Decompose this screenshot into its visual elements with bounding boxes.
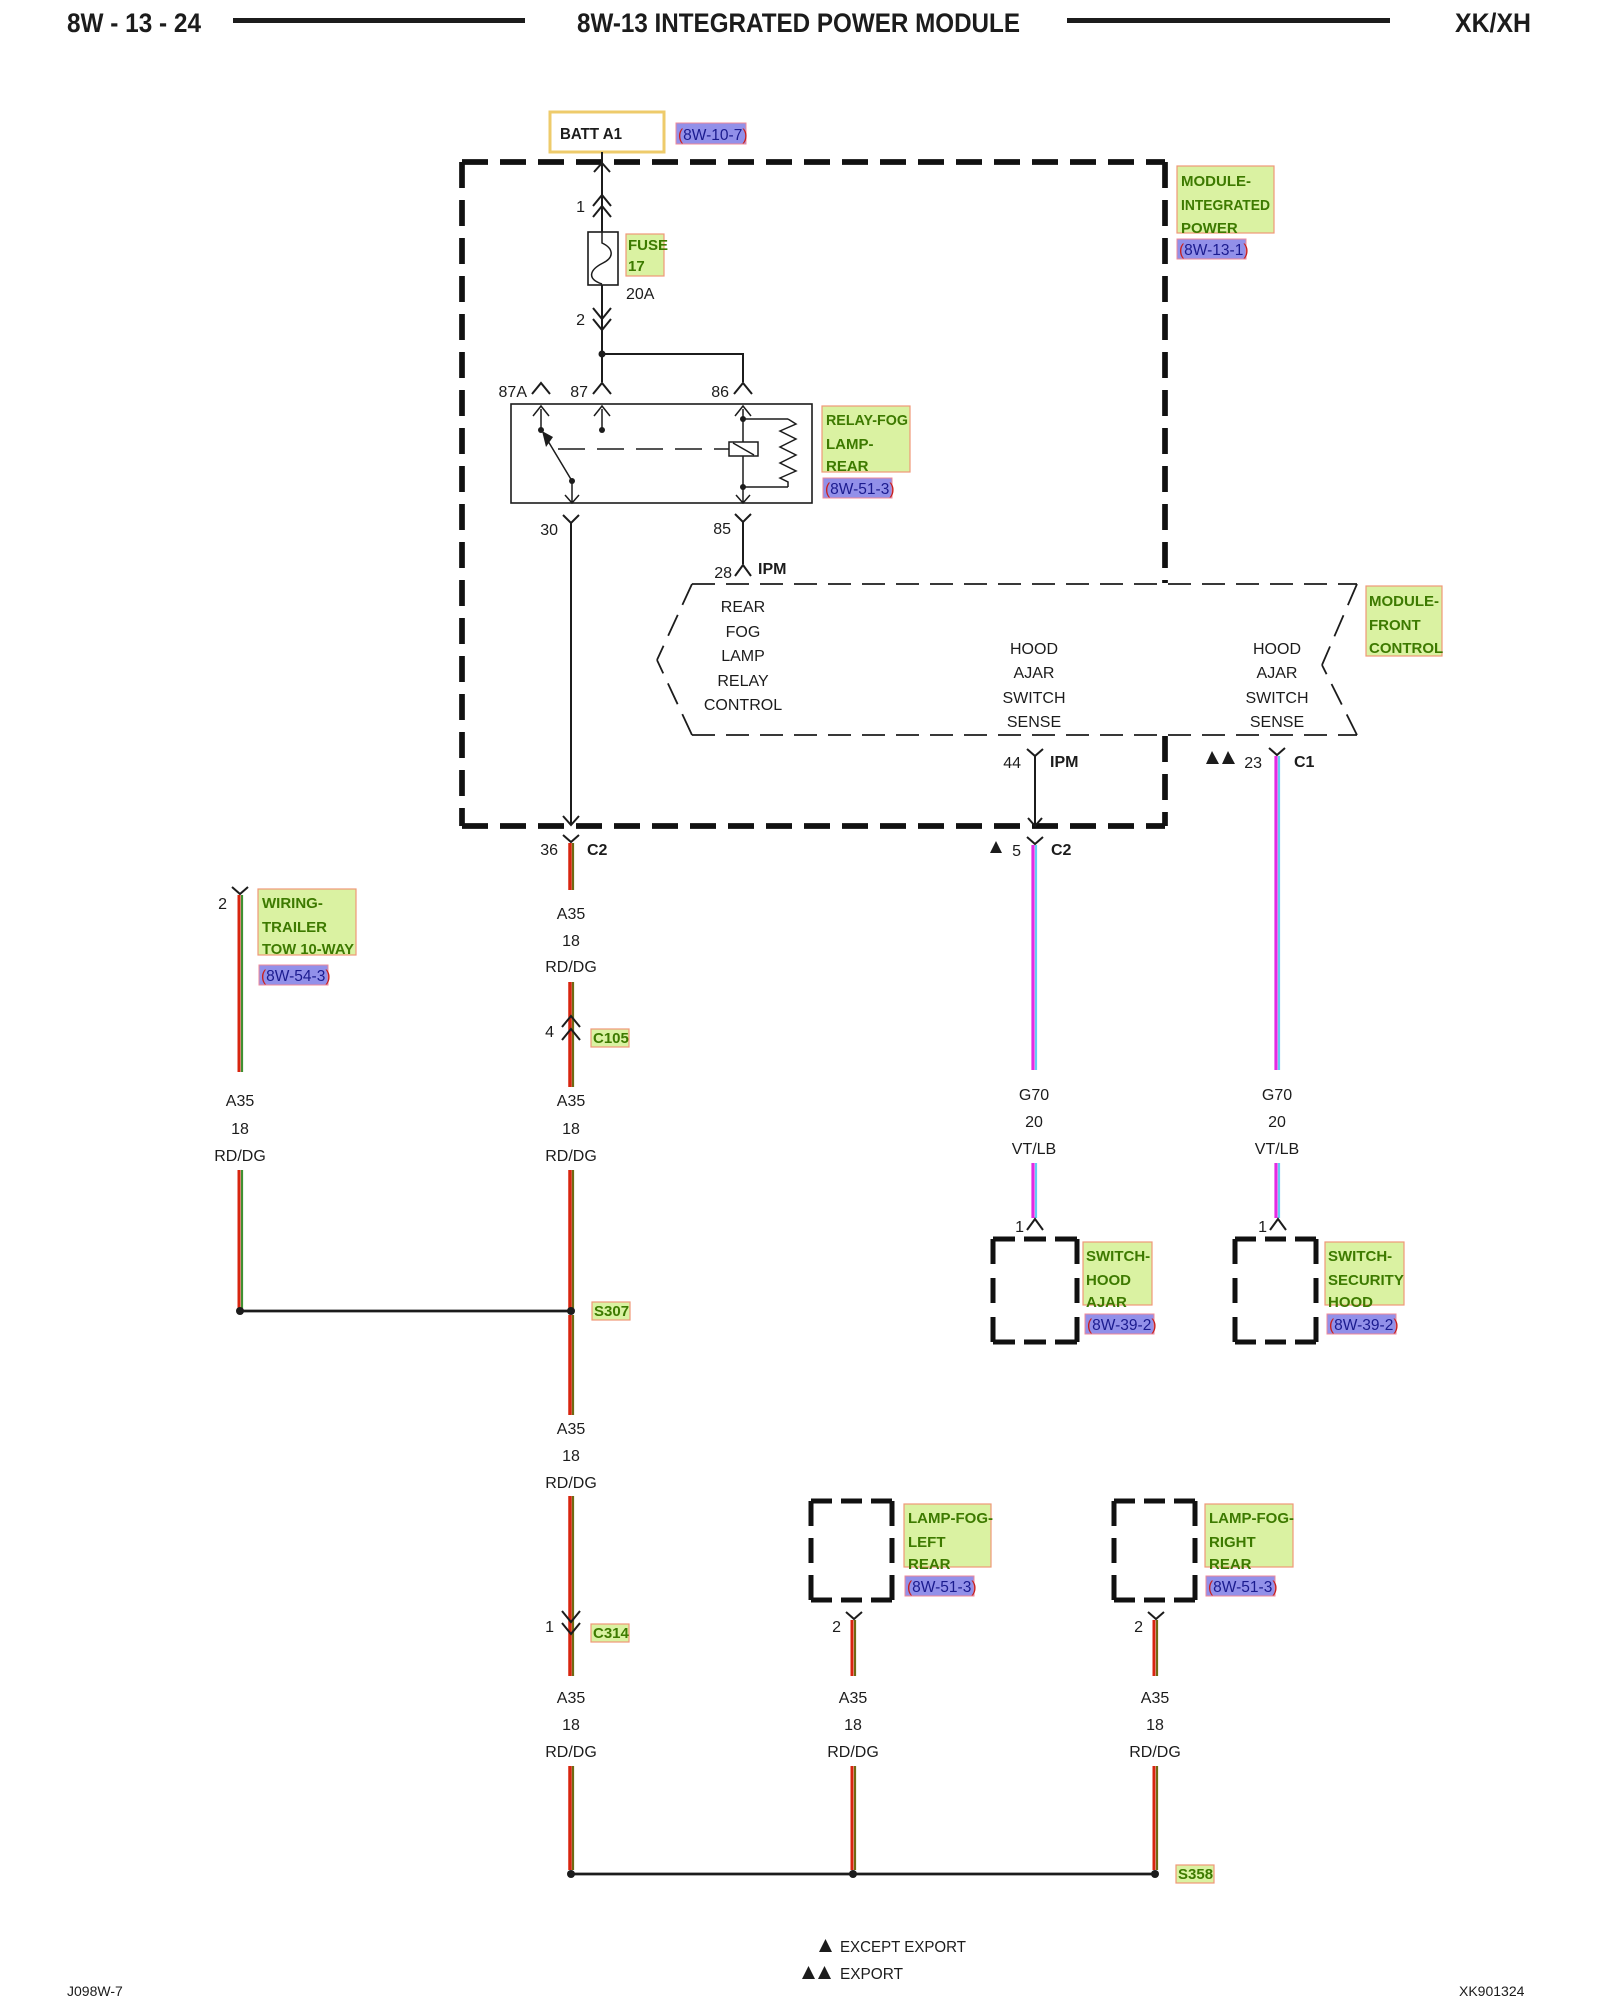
svg-text:C2: C2 — [587, 842, 608, 859]
svg-text:BATT A1: BATT A1 — [560, 126, 622, 143]
wire A35 segment to S307 — [570, 1170, 573, 1308]
arrowhead into module at border — [594, 163, 610, 172]
svg-text:WIRING-: WIRING- — [262, 895, 323, 912]
svg-text:(8W-54-3): (8W-54-3) — [261, 968, 331, 985]
svg-text:AJAR: AJAR — [1257, 665, 1298, 682]
svg-text:C2: C2 — [1051, 842, 1072, 859]
wire pin 30 down to C2 — [563, 529, 579, 825]
svg-text:REAR: REAR — [908, 1556, 951, 1573]
svg-text:(8W-51-3): (8W-51-3) — [825, 481, 895, 498]
connector 1 security hood switch — [1258, 1219, 1286, 1236]
svg-text:RD/DG: RD/DG — [545, 1148, 597, 1165]
module integrated power dashed boundary — [462, 162, 1165, 826]
connector 4 C105 — [545, 1016, 580, 1041]
svg-text:5: 5 — [1012, 843, 1021, 860]
label S307 — [592, 1302, 630, 1320]
svg-text:S307: S307 — [594, 1303, 629, 1320]
label C314 — [591, 1624, 630, 1642]
svg-text:44: 44 — [1003, 755, 1021, 772]
svg-text:2: 2 — [576, 312, 585, 329]
reference label (8W-39-2) left — [1085, 1314, 1157, 1334]
svg-text:SWITCH-: SWITCH- — [1328, 1248, 1392, 1265]
net name rear fog lamp relay control — [704, 599, 782, 714]
svg-text:RD/DG: RD/DG — [827, 1744, 879, 1761]
connector 5 C2 — [990, 837, 1072, 860]
label MODULE-FRONT CONTROL — [1366, 586, 1443, 657]
svg-text:REAR: REAR — [826, 458, 869, 475]
relay RELAY-FOG LAMP-REAR body — [511, 404, 812, 503]
svg-text:1: 1 — [1258, 1219, 1267, 1236]
svg-text:A35: A35 — [557, 906, 586, 923]
svg-text:IPM: IPM — [1050, 754, 1078, 771]
svg-text:18: 18 — [562, 1717, 580, 1734]
svg-text:LAMP: LAMP — [721, 648, 765, 665]
connector 1 chevrons — [576, 195, 611, 217]
svg-text:REAR: REAR — [721, 599, 765, 616]
connector 28 IPM — [714, 561, 786, 582]
svg-text:30: 30 — [540, 522, 558, 539]
label FUSE 17 — [626, 234, 668, 276]
label SWITCH-HOOD AJAR — [1083, 1242, 1152, 1311]
net name hood ajar switch sense right — [1245, 641, 1308, 731]
svg-text:18: 18 — [1146, 1717, 1164, 1734]
svg-text:LEFT: LEFT — [908, 1534, 946, 1551]
wire A35 to S358 left — [570, 1766, 573, 1870]
wire label A35 18 RD/DG bottom right — [1129, 1690, 1181, 1761]
wire A35 right lamp to S358 — [1154, 1766, 1157, 1870]
svg-text:(8W-13-1): (8W-13-1) — [1179, 242, 1249, 259]
svg-text:HOOD: HOOD — [1086, 1272, 1131, 1289]
relay coil box — [729, 442, 758, 456]
svg-text:A35: A35 — [557, 1421, 586, 1438]
svg-text:G70: G70 — [1019, 1087, 1049, 1104]
relay pin 87A terminal — [499, 383, 550, 401]
reference label (8W-10-7) — [676, 123, 748, 144]
svg-text:1: 1 — [545, 1619, 554, 1636]
reference label (8W-51-3) left lamp — [905, 1576, 977, 1596]
reference label (8W-39-2) right — [1327, 1314, 1399, 1334]
legend export — [802, 1966, 903, 1983]
label LAMP-FOG-LEFT REAR — [904, 1504, 993, 1573]
svg-text:20: 20 — [1025, 1114, 1043, 1131]
legend except export — [819, 1939, 966, 1956]
svg-text:VT/LB: VT/LB — [1012, 1141, 1056, 1158]
wire A35 segment label to C105 — [570, 982, 573, 1087]
svg-text:TOW 10-WAY: TOW 10-WAY — [262, 941, 354, 958]
wire A35 below S307 — [570, 1315, 573, 1415]
wire A35 to C314 — [570, 1496, 573, 1676]
svg-text:2: 2 — [1134, 1619, 1143, 1636]
svg-text:A35: A35 — [1141, 1690, 1170, 1707]
module front control banner outline — [657, 584, 1357, 735]
svg-text:MODULE-: MODULE- — [1369, 593, 1439, 610]
svg-text:17: 17 — [628, 258, 645, 275]
wire A35 right lamp upper — [1154, 1620, 1157, 1676]
svg-text:85: 85 — [713, 521, 731, 538]
svg-text:LAMP-FOG-: LAMP-FOG- — [908, 1510, 993, 1527]
svg-text:HOOD: HOOD — [1010, 641, 1058, 658]
label SWITCH-SECURITY HOOD — [1325, 1242, 1404, 1311]
svg-text:87A: 87A — [499, 384, 528, 401]
svg-text:2: 2 — [832, 1619, 841, 1636]
wire label A35 18 RD/DG bottom left — [545, 1690, 597, 1761]
svg-text:8W-13 INTEGRATED POWER MODULE: 8W-13 INTEGRATED POWER MODULE — [577, 8, 1020, 38]
svg-text:RD/DG: RD/DG — [214, 1148, 266, 1165]
svg-text:1: 1 — [576, 199, 585, 216]
wire label A35 18 RD/DG mid — [545, 1093, 597, 1165]
label C105 — [591, 1029, 629, 1047]
svg-text:HOOD: HOOD — [1253, 641, 1301, 658]
VT/LB wire hood ajar upper — [1033, 845, 1036, 1070]
trailer tow connector 2 — [218, 887, 248, 913]
svg-text:FUSE: FUSE — [628, 237, 668, 254]
svg-text:VT/LB: VT/LB — [1255, 1141, 1299, 1158]
VT/LB wire security hood lower — [1276, 1163, 1279, 1218]
svg-text:A35: A35 — [839, 1690, 868, 1707]
svg-text:4: 4 — [545, 1024, 554, 1041]
label WIRING-TRAILER TOW 10-WAY — [258, 889, 356, 958]
svg-text:IPM: IPM — [758, 561, 786, 578]
svg-text:86: 86 — [711, 384, 729, 401]
wire A35 left lamp to S358 — [852, 1766, 855, 1870]
svg-text:A35: A35 — [557, 1093, 586, 1110]
svg-text:SENSE: SENSE — [1007, 714, 1061, 731]
lamp fog right rear dashed box — [1114, 1501, 1195, 1600]
connector 23 C1 — [1206, 748, 1315, 772]
svg-text:AJAR: AJAR — [1014, 665, 1055, 682]
relay internal pin 86 branch — [735, 406, 796, 503]
svg-text:LAMP-: LAMP- — [826, 436, 874, 453]
wire label A35 18 RD/DG lower — [545, 1421, 597, 1492]
svg-text:28: 28 — [714, 565, 732, 582]
connector 2 chevrons — [576, 308, 611, 330]
svg-text:XK901324: XK901324 — [1459, 1983, 1525, 1999]
svg-text:RD/DG: RD/DG — [545, 959, 597, 976]
svg-text:FOG: FOG — [726, 624, 761, 641]
svg-text:18: 18 — [562, 1121, 580, 1138]
svg-text:36: 36 — [540, 842, 558, 859]
splice S358 — [567, 1870, 1159, 1878]
svg-text:EXCEPT EXPORT: EXCEPT EXPORT — [840, 1939, 966, 1956]
relay pin 30 terminal — [540, 515, 579, 539]
svg-text:(8W-51-3): (8W-51-3) — [907, 1579, 977, 1596]
svg-text:C105: C105 — [593, 1030, 629, 1047]
svg-text:2: 2 — [218, 896, 227, 913]
reference label (8W-13-1) — [1177, 239, 1249, 259]
svg-text:INTEGRATED: INTEGRATED — [1181, 197, 1270, 214]
net name hood ajar switch sense left — [1002, 641, 1065, 731]
svg-text:20A: 20A — [626, 286, 655, 303]
svg-text:8W - 13 - 24: 8W - 13 - 24 — [67, 8, 201, 38]
connector 2 left lamp — [832, 1612, 862, 1636]
wire label G70 20 VT/LB right — [1255, 1087, 1299, 1158]
svg-text:87: 87 — [570, 384, 588, 401]
svg-text:23: 23 — [1244, 755, 1262, 772]
svg-text:C314: C314 — [593, 1625, 630, 1642]
svg-text:20: 20 — [1268, 1114, 1286, 1131]
wire junction to relay pin 86 — [602, 354, 743, 382]
svg-text:C1: C1 — [1294, 754, 1315, 771]
wire label A35 18 RD/DG upper — [545, 906, 597, 976]
relay pin 87 terminal — [570, 383, 611, 401]
wire trailer tow upper segment — [239, 895, 242, 1072]
svg-text:18: 18 — [231, 1121, 249, 1138]
svg-text:J098W-7: J098W-7 — [67, 1983, 123, 1999]
relay pin 86 terminal — [711, 383, 752, 401]
label LAMP-FOG-RIGHT REAR — [1205, 1504, 1294, 1573]
svg-text:LAMP-FOG-: LAMP-FOG- — [1209, 1510, 1294, 1527]
svg-text:18: 18 — [562, 1448, 580, 1465]
relay switch arm — [542, 431, 579, 503]
switch hood ajar dashed box — [993, 1239, 1077, 1342]
svg-text:(8W-51-3): (8W-51-3) — [1208, 1579, 1278, 1596]
relay pin 85 terminal — [713, 514, 751, 538]
svg-text:SECURITY: SECURITY — [1328, 1272, 1404, 1289]
switch security hood dashed box — [1235, 1239, 1316, 1342]
battery feed box BATT A1 — [550, 112, 664, 152]
reference label (8W-51-3) right lamp — [1206, 1576, 1278, 1596]
svg-text:RD/DG: RD/DG — [545, 1744, 597, 1761]
connector 44 IPM — [1003, 749, 1078, 772]
svg-text:S358: S358 — [1178, 1866, 1213, 1883]
svg-text:RELAY: RELAY — [717, 673, 769, 690]
header left rule — [233, 18, 525, 23]
wire junction to relay pin 87 — [601, 354, 603, 382]
relay internal pin 87 stub — [594, 406, 610, 433]
junction node below fuse — [599, 351, 606, 358]
svg-text:FRONT: FRONT — [1369, 617, 1421, 634]
svg-text:18: 18 — [844, 1717, 862, 1734]
wire label G70 20 VT/LB left — [1012, 1087, 1056, 1158]
connector 2 right lamp — [1134, 1612, 1164, 1636]
svg-text:A35: A35 — [226, 1093, 255, 1110]
connector 1 C314 — [545, 1611, 580, 1636]
svg-text:HOOD: HOOD — [1328, 1294, 1373, 1311]
relay actuation dashed link — [558, 448, 729, 450]
svg-text:MODULE-: MODULE- — [1181, 173, 1251, 190]
svg-text:AJAR: AJAR — [1086, 1294, 1127, 1311]
svg-text:SENSE: SENSE — [1250, 714, 1304, 731]
wire fuse to junction — [601, 285, 603, 354]
svg-text:18: 18 — [562, 933, 580, 950]
svg-text:(8W-39-2): (8W-39-2) — [1087, 1317, 1157, 1334]
wire trailer tow lower segment — [239, 1170, 242, 1308]
svg-text:SWITCH-: SWITCH- — [1086, 1248, 1150, 1265]
svg-text:(8W-10-7): (8W-10-7) — [678, 127, 748, 144]
wire battery to fuse — [601, 152, 603, 232]
connector 1 hood ajar switch — [1015, 1219, 1043, 1236]
label RELAY-FOG LAMP-REAR — [822, 406, 910, 475]
svg-text:(8W-39-2): (8W-39-2) — [1329, 1317, 1399, 1334]
svg-text:POWER: POWER — [1181, 220, 1238, 237]
reference label (8W-51-3) relay — [823, 478, 895, 498]
wire A35 segment C2 to label — [570, 843, 573, 890]
lamp fog left rear dashed box — [811, 1501, 892, 1600]
svg-text:RIGHT: RIGHT — [1209, 1534, 1256, 1551]
svg-text:CONTROL: CONTROL — [704, 697, 782, 714]
VT/LB wire hood ajar lower — [1033, 1163, 1036, 1218]
svg-text:A35: A35 — [557, 1690, 586, 1707]
VT/LB wire security hood upper — [1276, 756, 1279, 1070]
svg-text:RD/DG: RD/DG — [1129, 1744, 1181, 1761]
label S358 — [1176, 1865, 1214, 1883]
wire label A35 18 RD/DG bottom mid — [827, 1690, 879, 1761]
svg-text:SWITCH: SWITCH — [1245, 690, 1308, 707]
fuse 17 symbol — [588, 232, 618, 285]
splice S307 — [236, 1307, 575, 1315]
label MODULE-INTEGRATED POWER — [1177, 166, 1274, 237]
svg-text:XK/XH: XK/XH — [1455, 8, 1531, 38]
svg-text:EXPORT: EXPORT — [840, 1966, 903, 1983]
svg-text:REAR: REAR — [1209, 1556, 1252, 1573]
relay internal pin 87A stub — [533, 406, 549, 433]
svg-text:TRAILER: TRAILER — [262, 919, 327, 936]
svg-text:RD/DG: RD/DG — [545, 1475, 597, 1492]
svg-text:G70: G70 — [1262, 1087, 1292, 1104]
wire 44 to C2 with arrow — [1028, 761, 1042, 826]
svg-text:1: 1 — [1015, 1219, 1024, 1236]
wire label A35 18 RD/DG trailer — [214, 1093, 266, 1165]
svg-text:RELAY-FOG: RELAY-FOG — [826, 412, 908, 429]
wire pin 85 to IPM pin 28 — [742, 528, 744, 564]
connector 36 C2 — [540, 835, 607, 859]
reference label (8W-54-3) — [259, 965, 331, 985]
svg-text:SWITCH: SWITCH — [1002, 690, 1065, 707]
svg-text:CONTROL: CONTROL — [1369, 640, 1443, 657]
header right rule — [1067, 18, 1390, 23]
wire A35 left lamp upper — [852, 1620, 855, 1676]
